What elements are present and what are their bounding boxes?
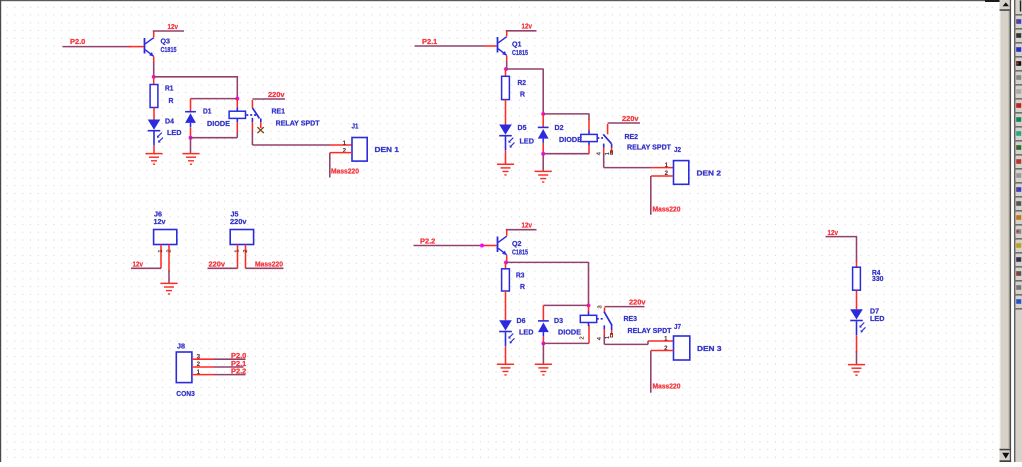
svg-text:220v: 220v: [209, 259, 226, 268]
svg-text:R2: R2: [518, 78, 527, 87]
svg-text:RELAY SPDT: RELAY SPDT: [276, 118, 321, 127]
svg-text:DIODE: DIODE: [559, 135, 582, 144]
svg-text:D3: D3: [554, 316, 563, 325]
svg-text:DEN 2: DEN 2: [697, 168, 722, 177]
svg-text:LED: LED: [167, 128, 182, 137]
svg-text:D5: D5: [518, 123, 527, 132]
svg-text:LED: LED: [520, 136, 535, 145]
svg-text:LED: LED: [870, 314, 885, 323]
svg-text:RE3: RE3: [624, 314, 638, 323]
svg-text:P2.0: P2.0: [70, 37, 85, 46]
svg-text:J7: J7: [674, 322, 681, 331]
svg-text:DEN 1: DEN 1: [375, 145, 400, 154]
svg-text:J1: J1: [352, 121, 359, 130]
svg-text:R3: R3: [516, 270, 525, 279]
svg-text:J8: J8: [177, 341, 185, 350]
svg-text:4: 4: [597, 152, 603, 155]
svg-text:P2.2: P2.2: [231, 367, 246, 376]
svg-text:R: R: [520, 282, 526, 291]
svg-text:220v: 220v: [230, 217, 247, 226]
svg-text:C1815: C1815: [161, 45, 177, 54]
svg-text:J2: J2: [674, 145, 681, 154]
svg-text:12v: 12v: [154, 217, 167, 226]
svg-text:DEN 3: DEN 3: [697, 344, 722, 353]
svg-text:C1815: C1815: [512, 48, 528, 57]
svg-text:1: 1: [158, 249, 164, 252]
svg-text:D1: D1: [203, 107, 212, 116]
svg-text:1: 1: [234, 249, 240, 252]
svg-text:C1815: C1815: [512, 247, 528, 256]
svg-text:2: 2: [580, 336, 586, 339]
svg-text:P2.2: P2.2: [420, 237, 435, 246]
svg-text:DIODE: DIODE: [558, 327, 581, 336]
svg-text:P2.1: P2.1: [422, 37, 437, 46]
svg-text:R1: R1: [165, 84, 174, 93]
svg-text:12v: 12v: [522, 22, 533, 31]
svg-text:R: R: [520, 90, 526, 99]
svg-text:D4: D4: [165, 116, 175, 125]
svg-text:330: 330: [872, 274, 884, 283]
svg-text:RE1: RE1: [272, 106, 286, 115]
svg-text:RE2: RE2: [625, 132, 639, 141]
svg-text:DIODE: DIODE: [207, 119, 230, 128]
svg-text:Mass220: Mass220: [653, 205, 681, 214]
svg-text:220v: 220v: [268, 90, 285, 99]
svg-text:Mass220: Mass220: [331, 166, 359, 175]
svg-text:D6: D6: [517, 316, 526, 325]
svg-text:4: 4: [597, 337, 603, 340]
svg-text:R: R: [169, 96, 175, 105]
svg-text:220v: 220v: [622, 114, 639, 123]
svg-text:220v: 220v: [629, 297, 646, 306]
svg-text:Mass220: Mass220: [255, 259, 283, 268]
svg-text:12v: 12v: [522, 220, 533, 229]
svg-text:2: 2: [243, 249, 249, 252]
svg-text:LED: LED: [519, 327, 534, 336]
svg-text:RELAY SPDT: RELAY SPDT: [627, 142, 672, 151]
svg-text:Mass220: Mass220: [653, 382, 681, 391]
svg-text:D2: D2: [555, 123, 564, 132]
svg-text:RELAY SPDT: RELAY SPDT: [628, 326, 673, 335]
svg-text:3: 3: [598, 305, 604, 308]
svg-text:12v: 12v: [133, 259, 144, 268]
svg-text:CON3: CON3: [176, 389, 195, 398]
svg-text:12v: 12v: [168, 22, 179, 31]
svg-text:2: 2: [166, 249, 172, 252]
